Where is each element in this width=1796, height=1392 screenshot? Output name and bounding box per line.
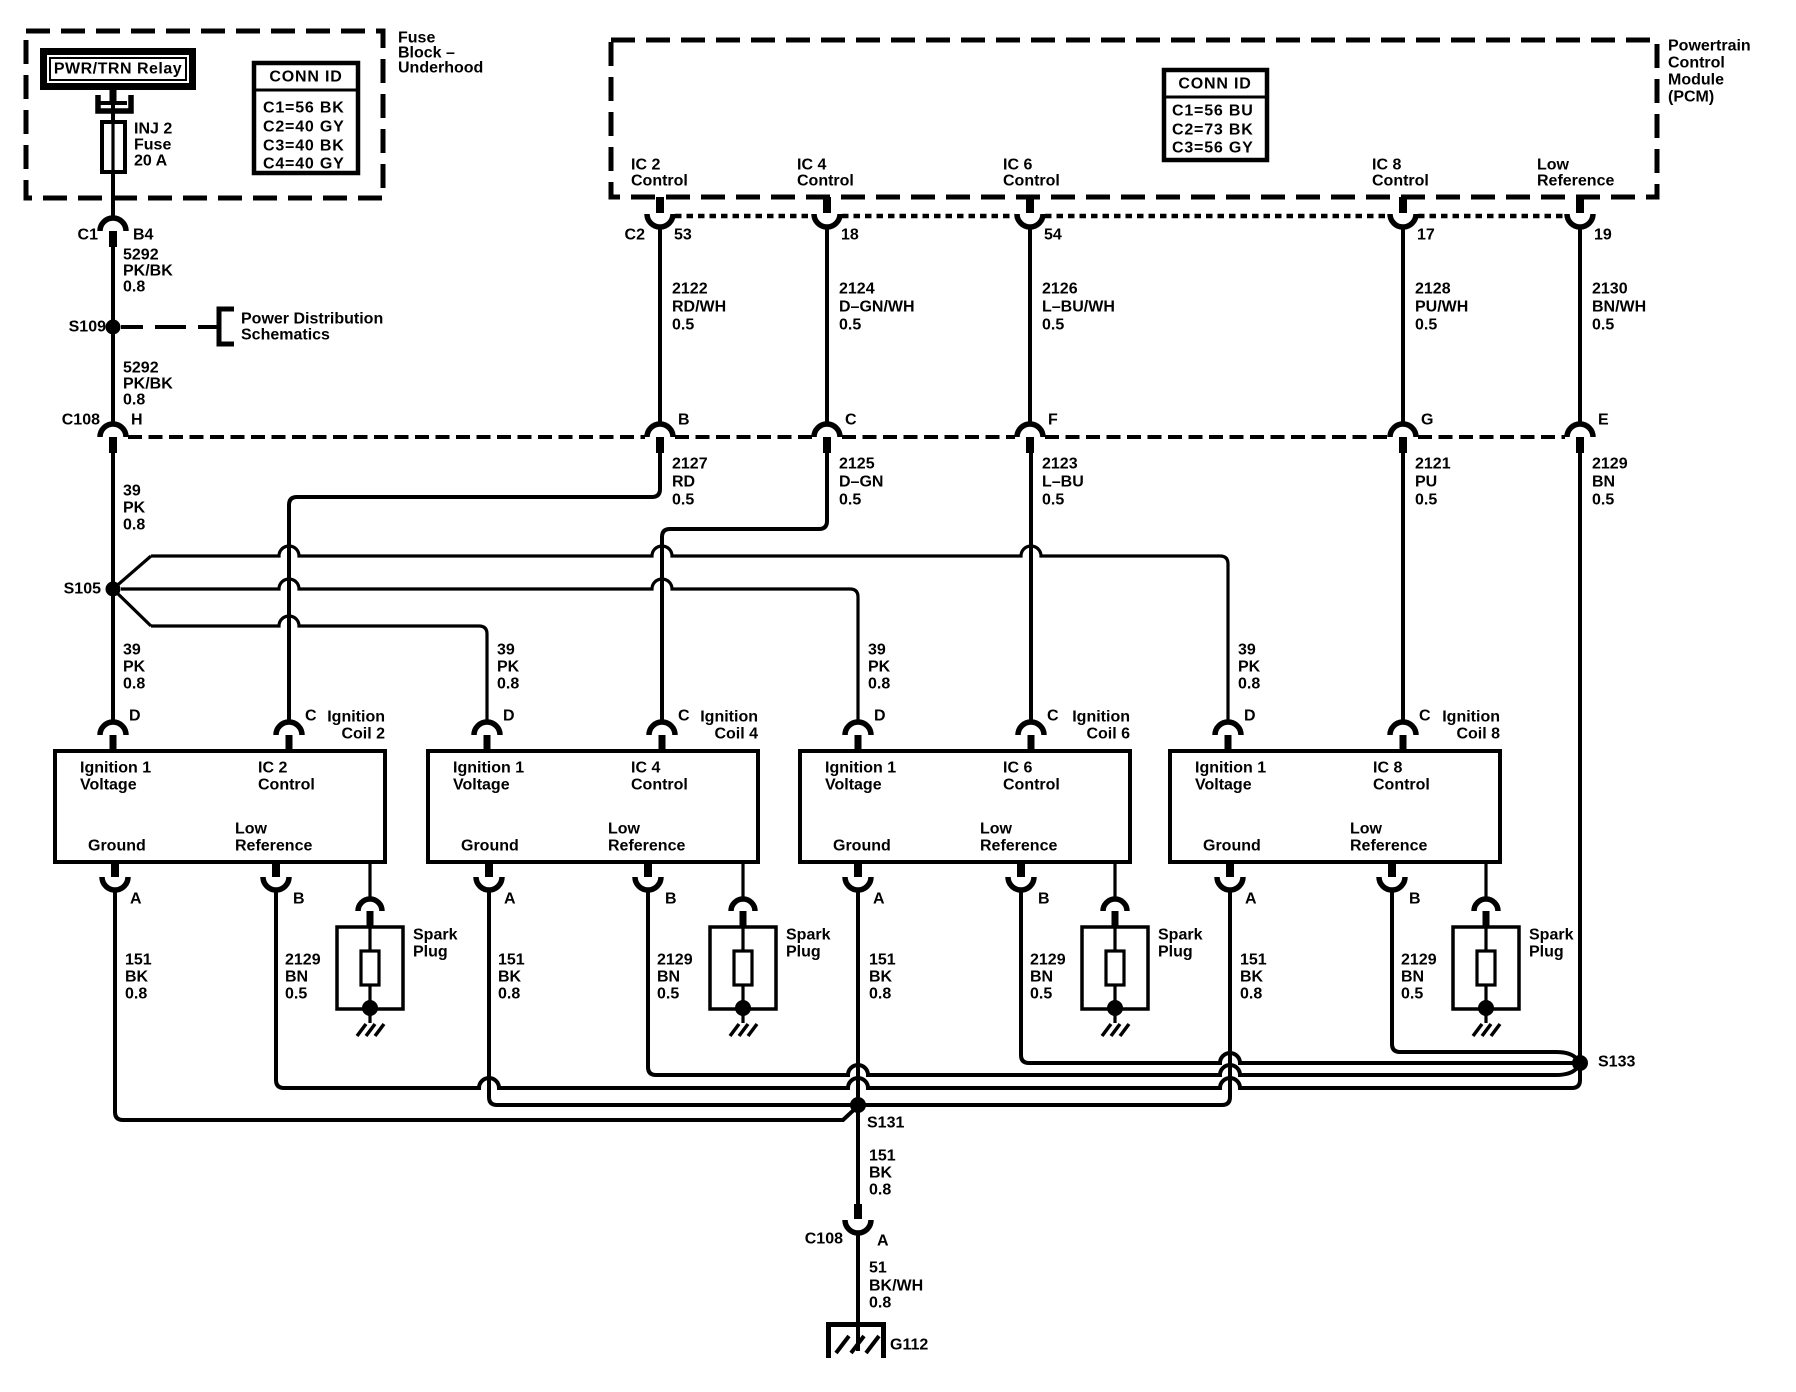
svg-text:C3=40 BK: C3=40 BK (263, 138, 345, 155)
svg-text:C2: C2 (625, 227, 646, 244)
svg-text:0.8: 0.8 (123, 517, 145, 534)
label: Spark Plug (coil 2) (413, 927, 458, 961)
coil 8 pin A connector (1217, 862, 1243, 890)
wire 151 BK (coil 4 A to S131) (489, 890, 858, 1105)
svg-text:Control: Control (1003, 777, 1060, 794)
ignition coil 2 box (55, 751, 385, 862)
svg-text:PK: PK (497, 659, 520, 676)
svg-text:D: D (1244, 708, 1256, 725)
svg-text:Control: Control (258, 777, 315, 794)
reference bracket (Power Distribution Schematics) (219, 309, 234, 344)
svg-text:Power Distribution: Power Distribution (241, 311, 383, 328)
svg-text:C1=56 BK: C1=56 BK (263, 100, 345, 117)
svg-text:Reference: Reference (1350, 838, 1427, 855)
splice S109 (106, 320, 121, 335)
svg-text:Ignition: Ignition (1442, 709, 1500, 726)
svg-text:Voltage: Voltage (825, 777, 882, 794)
svg-text:Ignition: Ignition (700, 709, 758, 726)
label: IC 8 Control (PCM pin) (1372, 157, 1429, 190)
svg-text:PK/BK: PK/BK (123, 376, 173, 393)
svg-text:B: B (665, 891, 677, 908)
pin number 17 (1417, 227, 1435, 244)
pin letter G (1421, 412, 1433, 429)
svg-text:Ignition 1: Ignition 1 (825, 760, 896, 777)
svg-text:BN/WH: BN/WH (1592, 299, 1646, 316)
svg-text:39: 39 (1238, 642, 1256, 659)
svg-text:0.8: 0.8 (1240, 986, 1262, 1003)
svg-text:G112: G112 (890, 1337, 928, 1354)
svg-text:Ground: Ground (461, 838, 519, 855)
svg-text:151: 151 (1240, 952, 1267, 969)
svg-text:IC 4: IC 4 (797, 157, 826, 174)
coil 2 pin D connector (100, 722, 126, 751)
svg-text:Ignition: Ignition (327, 709, 385, 726)
coil 2 pin A connector (102, 862, 128, 890)
svg-text:H: H (131, 412, 143, 429)
wire 51 BK/WH 0.8 (C108 A to G112) (856, 1233, 860, 1351)
svg-text:C2=40 GY: C2=40 GY (263, 119, 345, 136)
svg-text:Spark: Spark (413, 927, 458, 944)
svg-text:CONN ID: CONN ID (269, 69, 342, 86)
PCM connector C2 dotted harness line (675, 214, 1565, 219)
svg-text:BK: BK (125, 969, 149, 986)
svg-text:RD: RD (672, 474, 695, 491)
svg-text:0.8: 0.8 (1238, 676, 1260, 693)
label: Ground (coil 6) (833, 838, 891, 855)
label: 2129 BN 0.5 (E drop) (1592, 456, 1628, 509)
coil 6 pin C connector (1018, 722, 1044, 751)
pin letter C (coil 4) (678, 708, 690, 725)
label: pin B4 (133, 227, 154, 244)
wire 39 PK (S105 to coil 4 D, bottom branch) (113, 589, 487, 722)
svg-text:BK: BK (869, 969, 893, 986)
svg-text:A: A (1245, 891, 1257, 908)
label: 2123 L-BU 0.5 (1042, 456, 1084, 509)
svg-text:BN: BN (285, 969, 308, 986)
coil 8 pin B connector (1379, 862, 1405, 890)
svg-text:5292: 5292 (123, 360, 159, 377)
spark plug 8 connector (1474, 899, 1498, 928)
wire 2123 L-BU 0.5 (C108 F to coil 6 C) (1029, 453, 1033, 722)
svg-text:0.8: 0.8 (123, 676, 145, 693)
svg-text:Ignition 1: Ignition 1 (453, 760, 524, 777)
svg-text:D–GN: D–GN (839, 474, 883, 491)
svg-text:2129: 2129 (1401, 952, 1437, 969)
svg-text:Schematics: Schematics (241, 327, 330, 344)
svg-text:2127: 2127 (672, 456, 708, 473)
svg-text:Control: Control (1372, 173, 1429, 190)
svg-text:C3=56 GY: C3=56 GY (1172, 140, 1254, 157)
label: Ignition 1 Voltage (coil 4) (453, 760, 524, 794)
C108 connector pin C (cap + stub) (814, 424, 840, 453)
svg-text:D: D (503, 708, 515, 725)
dashed reference link to Power Distribution (121, 325, 218, 329)
label: 2121 PU 0.5 (1415, 456, 1451, 509)
svg-text:2126: 2126 (1042, 281, 1078, 298)
label: S133 (1598, 1054, 1635, 1071)
svg-text:0.8: 0.8 (498, 986, 520, 1003)
label: Low Reference (coil 8) (1350, 821, 1427, 855)
C108 connector pin F (cap + stub) (1017, 424, 1043, 453)
wire 5292 PK/BK 0.8 (fuse to C1) (111, 172, 115, 218)
fuse holder clip (98, 95, 131, 111)
svg-text:0.5: 0.5 (1042, 492, 1064, 509)
svg-text:Reference: Reference (1537, 173, 1614, 190)
svg-text:Control: Control (631, 173, 688, 190)
svg-text:19: 19 (1594, 227, 1612, 244)
svg-text:0.5: 0.5 (1042, 317, 1064, 334)
label: Power Distribution Schematics (241, 311, 383, 344)
spark plug 4 ground (730, 1024, 757, 1036)
svg-text:2129: 2129 (1030, 952, 1066, 969)
label: Low Reference (coil 6) (980, 821, 1057, 855)
svg-text:IC 8: IC 8 (1372, 157, 1401, 174)
label: 2129 BN 0.5 (x=657) (657, 952, 693, 1003)
svg-text:IC 2: IC 2 (631, 157, 660, 174)
wire 2124 D-GN/WH 0.5 (PCM to C108) (825, 227, 829, 424)
svg-text:Ignition: Ignition (1072, 709, 1130, 726)
ignition coil 8 box (1170, 751, 1500, 862)
wire: coil 4 to spark plug (741, 862, 744, 899)
svg-text:S133: S133 (1598, 1054, 1635, 1071)
svg-text:Coil 6: Coil 6 (1086, 726, 1130, 743)
label: 2128 PU/WH 0.5 (1415, 281, 1468, 334)
label: C108 (ground pass-through) (805, 1231, 843, 1248)
svg-text:0.8: 0.8 (869, 1295, 891, 1312)
pin letter D (coil 4) (503, 708, 515, 725)
svg-text:G: G (1421, 412, 1433, 429)
wire 151 BK 0.8 (S131 to C108 A) (856, 1105, 860, 1204)
label: Ignition Coil 4 (700, 709, 758, 743)
svg-text:0.5: 0.5 (1592, 492, 1614, 509)
C108 connector pin G (cap + stub) (1390, 424, 1416, 453)
spark plug 8 ground (1473, 1024, 1500, 1036)
svg-text:0.5: 0.5 (657, 986, 679, 1003)
wire 2121 PU 0.5 (C108 G to coil 8 C) (1401, 453, 1405, 722)
spark plug 4 connector (731, 899, 755, 928)
splice S131 (850, 1097, 866, 1113)
pin letter D (coil 2) (129, 708, 141, 725)
pin letter C (845, 412, 857, 429)
spark plug 8 (1453, 927, 1519, 1023)
svg-text:Low: Low (608, 821, 641, 838)
connector C1 pin B4 (cap + stub) (100, 218, 126, 247)
svg-text:Module: Module (1668, 72, 1724, 89)
svg-text:0.5: 0.5 (1401, 986, 1423, 1003)
coil 4 pin C connector (649, 722, 675, 751)
svg-text:Ground: Ground (1203, 838, 1261, 855)
pin letter H (131, 412, 143, 429)
svg-text:53: 53 (674, 227, 692, 244)
coil 8 pin D connector (1215, 722, 1241, 751)
wire 2129 BN (coil 2 B to S133) (276, 890, 1580, 1088)
svg-text:Reference: Reference (980, 838, 1057, 855)
label: Low Reference (coil 2) (235, 821, 312, 855)
svg-text:Voltage: Voltage (453, 777, 510, 794)
svg-text:Voltage: Voltage (80, 777, 137, 794)
svg-text:Plug: Plug (1529, 944, 1564, 961)
svg-text:2129: 2129 (657, 952, 693, 969)
svg-text:C: C (845, 412, 857, 429)
wire 2128 PU/WH 0.5 (PCM to C108) (1401, 227, 1405, 424)
svg-text:RD/WH: RD/WH (672, 299, 726, 316)
label: Ground (coil 4) (461, 838, 519, 855)
label: 151 BK 0.8 (x=498) (498, 952, 525, 1003)
pin letter F (1048, 412, 1058, 429)
svg-text:39: 39 (123, 642, 141, 659)
svg-text:0.8: 0.8 (869, 986, 891, 1003)
svg-text:Low: Low (1350, 821, 1383, 838)
svg-text:BK: BK (869, 1165, 893, 1182)
wire 5292 PK/BK 0.8 (S109 to C108 H) (111, 327, 115, 424)
svg-text:Low: Low (1537, 157, 1570, 174)
coil 6 pin D connector (845, 722, 871, 751)
svg-text:IC 2: IC 2 (258, 760, 287, 777)
svg-text:0.8: 0.8 (125, 986, 147, 1003)
wire 2129 BN (coil 4 B to S133) (648, 890, 1580, 1075)
svg-text:L–BU: L–BU (1042, 474, 1084, 491)
label: IC 8 Control (coil 8) (1373, 760, 1430, 794)
svg-text:39: 39 (123, 483, 141, 500)
fuse F1 INJ 2 20A (102, 111, 125, 172)
label: 39 PK 0.8 (coil 2 feed) (123, 642, 146, 693)
label: Spark Plug (coil 8) (1529, 927, 1574, 961)
svg-text:L–BU/WH: L–BU/WH (1042, 299, 1115, 316)
svg-text:C1=56 BU: C1=56 BU (1172, 103, 1254, 120)
svg-text:IC 6: IC 6 (1003, 760, 1032, 777)
svg-text:BN: BN (1030, 969, 1053, 986)
svg-text:Fuse: Fuse (134, 137, 171, 154)
svg-text:PK/BK: PK/BK (123, 263, 173, 280)
svg-text:C108: C108 (805, 1231, 843, 1248)
label: Ground (coil 8) (1203, 838, 1261, 855)
wire 2126 L-BU/WH 0.5 (PCM to C108) (1028, 227, 1032, 424)
svg-text:0.5: 0.5 (1592, 317, 1614, 334)
ignition coil 6 box (800, 751, 1130, 862)
svg-text:Reference: Reference (608, 838, 685, 855)
wire: coil 2 to spark plug (368, 862, 371, 899)
svg-text:BK: BK (498, 969, 522, 986)
C108 in-line connector dashed line (128, 435, 1565, 439)
svg-text:151: 151 (869, 952, 896, 969)
wire 39 PK 0.8 (C108 H to S105) (111, 453, 115, 589)
relay K1 PWR/TRN Relay box (44, 52, 193, 87)
svg-text:BK: BK (1240, 969, 1264, 986)
wire 151 BK (coil 8 A to S131) (858, 890, 1230, 1105)
label: 151 BK 0.8 (x=869) (869, 952, 896, 1003)
svg-text:S131: S131 (867, 1115, 904, 1132)
label: IC 4 Control (PCM pin) (797, 157, 854, 190)
label: C2 (connector id) (625, 227, 646, 244)
label: 2122 RD/WH 0.5 (672, 281, 726, 334)
svg-text:Coil 8: Coil 8 (1456, 726, 1500, 743)
svg-text:Voltage: Voltage (1195, 777, 1252, 794)
label: S109 (69, 319, 106, 336)
label: G112 (890, 1337, 928, 1354)
splice S133 (1572, 1055, 1588, 1071)
label: Ignition 1 Voltage (coil 8) (1195, 760, 1266, 794)
svg-text:Spark: Spark (786, 927, 831, 944)
svg-text:2123: 2123 (1042, 456, 1078, 473)
PCM connector pin 18 (stub + cup) (814, 197, 840, 227)
label: C108 (connector id) (62, 412, 100, 429)
pin letter C (coil 6) (1047, 708, 1059, 725)
spark plug 6 connector (1103, 899, 1127, 928)
pin number 53 (674, 227, 692, 244)
svg-text:C: C (1047, 708, 1059, 725)
pin letter A (coil 8) (1245, 891, 1257, 908)
label: Powertrain Control Module (PCM) (1668, 38, 1751, 106)
svg-text:D: D (129, 708, 141, 725)
svg-text:Underhood: Underhood (398, 60, 483, 77)
svg-text:18: 18 (841, 227, 859, 244)
svg-text:Plug: Plug (1158, 944, 1193, 961)
svg-text:0.8: 0.8 (869, 1182, 891, 1199)
label: S105 (64, 581, 101, 598)
label: Ignition Coil 8 (1442, 709, 1500, 743)
svg-text:20 A: 20 A (134, 153, 168, 170)
svg-text:D: D (874, 708, 886, 725)
wire 39 PK (S105 to coil 8 D, top branch) (113, 546, 1228, 722)
svg-text:INJ 2: INJ 2 (134, 121, 172, 138)
svg-text:E: E (1598, 412, 1609, 429)
svg-text:A: A (873, 891, 885, 908)
svg-text:17: 17 (1417, 227, 1435, 244)
label: Ignition 1 Voltage (coil 2) (80, 760, 151, 794)
C108 connector pin E (cap + stub) (1567, 424, 1593, 453)
ignition coil 4 box (428, 751, 758, 862)
svg-text:2129: 2129 (285, 952, 321, 969)
svg-text:Ignition 1: Ignition 1 (1195, 760, 1266, 777)
PCM connector pin 19 (stub + cup) (1567, 197, 1593, 227)
spark plug 2 connector (358, 899, 382, 928)
label: Ignition Coil 6 (1072, 709, 1130, 743)
coil 4 pin B connector (635, 862, 661, 890)
label: 2129 BN 0.5 (x=1030) (1030, 952, 1066, 1003)
pin letter B (coil 6) (1038, 891, 1050, 908)
svg-text:Spark: Spark (1529, 927, 1574, 944)
pin number 18 (841, 227, 859, 244)
wire 2127 RD 0.5 (C108 B to coil 2 C) (289, 453, 660, 722)
svg-text:Low: Low (235, 821, 268, 838)
wire: relay to fuse holder (110, 90, 117, 122)
svg-text:BN: BN (1592, 474, 1615, 491)
svg-text:PK: PK (123, 500, 146, 517)
label: 39 PK 0.8 (coil 4 feed) (497, 642, 520, 693)
svg-text:PU/WH: PU/WH (1415, 299, 1468, 316)
svg-text:2129: 2129 (1592, 456, 1628, 473)
C108 connector pin H (cap + stub) (100, 424, 126, 453)
PCM connector pin 54 (stub + cup) (1017, 197, 1043, 227)
wire 2129 BN (coil 8 B to S133) (1392, 890, 1580, 1063)
label: Spark Plug (coil 4) (786, 927, 831, 961)
pin letter B (coil 4) (665, 891, 677, 908)
svg-text:Reference: Reference (235, 838, 312, 855)
svg-text:PK: PK (123, 659, 146, 676)
pin letter B (678, 412, 690, 429)
label: Low Reference (coil 4) (608, 821, 685, 855)
svg-text:IC 6: IC 6 (1003, 157, 1032, 174)
label: 2124 D-GN/WH 0.5 (839, 281, 915, 334)
svg-text:PK: PK (1238, 659, 1261, 676)
label: 151 BK 0.8 (S131 drop) (869, 1148, 896, 1199)
C108 connector pin B (cap + stub) (647, 424, 673, 453)
svg-text:A: A (504, 891, 516, 908)
label: 39 PK 0.8 (coil 6 feed) (868, 642, 891, 693)
svg-text:PWR/TRN Relay: PWR/TRN Relay (54, 61, 182, 78)
label: 5292 PK/BK 0.8 (upper) (123, 247, 173, 296)
ground G112 (829, 1325, 884, 1359)
label: C1 (78, 227, 99, 244)
svg-text:C: C (305, 708, 317, 725)
svg-text:PU: PU (1415, 474, 1437, 491)
label: 2129 BN 0.5 (x=1401) (1401, 952, 1437, 1003)
pin letter A (C108) (877, 1233, 889, 1250)
spark plug 6 (1082, 927, 1148, 1023)
pin number 19 (1594, 227, 1612, 244)
label: 2125 D-GN 0.5 (839, 456, 883, 509)
label: S131 (867, 1115, 904, 1132)
svg-text:0.8: 0.8 (497, 676, 519, 693)
svg-text:0.5: 0.5 (672, 492, 694, 509)
svg-text:D–GN/WH: D–GN/WH (839, 299, 915, 316)
wire 2129 BN 0.5 (C108 E to S133) (1578, 453, 1582, 1063)
svg-text:C108: C108 (62, 412, 100, 429)
svg-text:0.8: 0.8 (868, 676, 890, 693)
wire 151 BK (coil 6 A to S131) (856, 890, 860, 1105)
svg-text:151: 151 (125, 952, 152, 969)
svg-text:54: 54 (1044, 227, 1062, 244)
wire: coil 8 to spark plug (1484, 862, 1487, 899)
svg-text:BN: BN (657, 969, 680, 986)
pin number 54 (1044, 227, 1062, 244)
PCM dashed border (Powertrain Control Module) (611, 40, 1657, 197)
pin letter A (coil 6) (873, 891, 885, 908)
pin letter A (coil 2) (130, 891, 142, 908)
wire 2130 BN/WH 0.5 (PCM to C108) (1578, 227, 1582, 424)
svg-text:IC 8: IC 8 (1373, 760, 1402, 777)
PCM connector pin 53 (stub + cup) (647, 197, 673, 227)
svg-text:2121: 2121 (1415, 456, 1451, 473)
svg-text:Coil 2: Coil 2 (341, 726, 385, 743)
svg-text:Control: Control (1373, 777, 1430, 794)
svg-text:B: B (1038, 891, 1050, 908)
svg-text:A: A (130, 891, 142, 908)
svg-text:C: C (1419, 708, 1431, 725)
spark plug 6 ground (1102, 1024, 1129, 1036)
pin letter E (1598, 412, 1609, 429)
svg-text:Control: Control (1668, 55, 1725, 72)
label: 151 BK 0.8 (x=1240) (1240, 952, 1267, 1003)
label: 151 BK 0.8 (x=125) (125, 952, 152, 1003)
label: 51 BK/WH 0.8 (869, 1260, 923, 1312)
wire 151 BK (coil 2 A to S131) (115, 890, 858, 1120)
svg-text:Coil 4: Coil 4 (714, 726, 758, 743)
svg-text:Control: Control (797, 173, 854, 190)
coil 6 pin B connector (1008, 862, 1034, 890)
wire 5292 PK/BK 0.8 (C1 to S109) (111, 247, 115, 327)
svg-text:C1: C1 (78, 227, 99, 244)
label: 2130 BN/WH 0.5 (1592, 281, 1646, 334)
spark plug 4 (710, 927, 776, 1023)
svg-text:Plug: Plug (786, 944, 821, 961)
label: Ground (coil 2) (88, 838, 146, 855)
coil 8 pin C connector (1390, 722, 1416, 751)
svg-text:2124: 2124 (839, 281, 875, 298)
svg-text:B4: B4 (133, 227, 154, 244)
connector C108 pin A (stub + cup) (845, 1204, 871, 1233)
svg-text:2128: 2128 (1415, 281, 1451, 298)
